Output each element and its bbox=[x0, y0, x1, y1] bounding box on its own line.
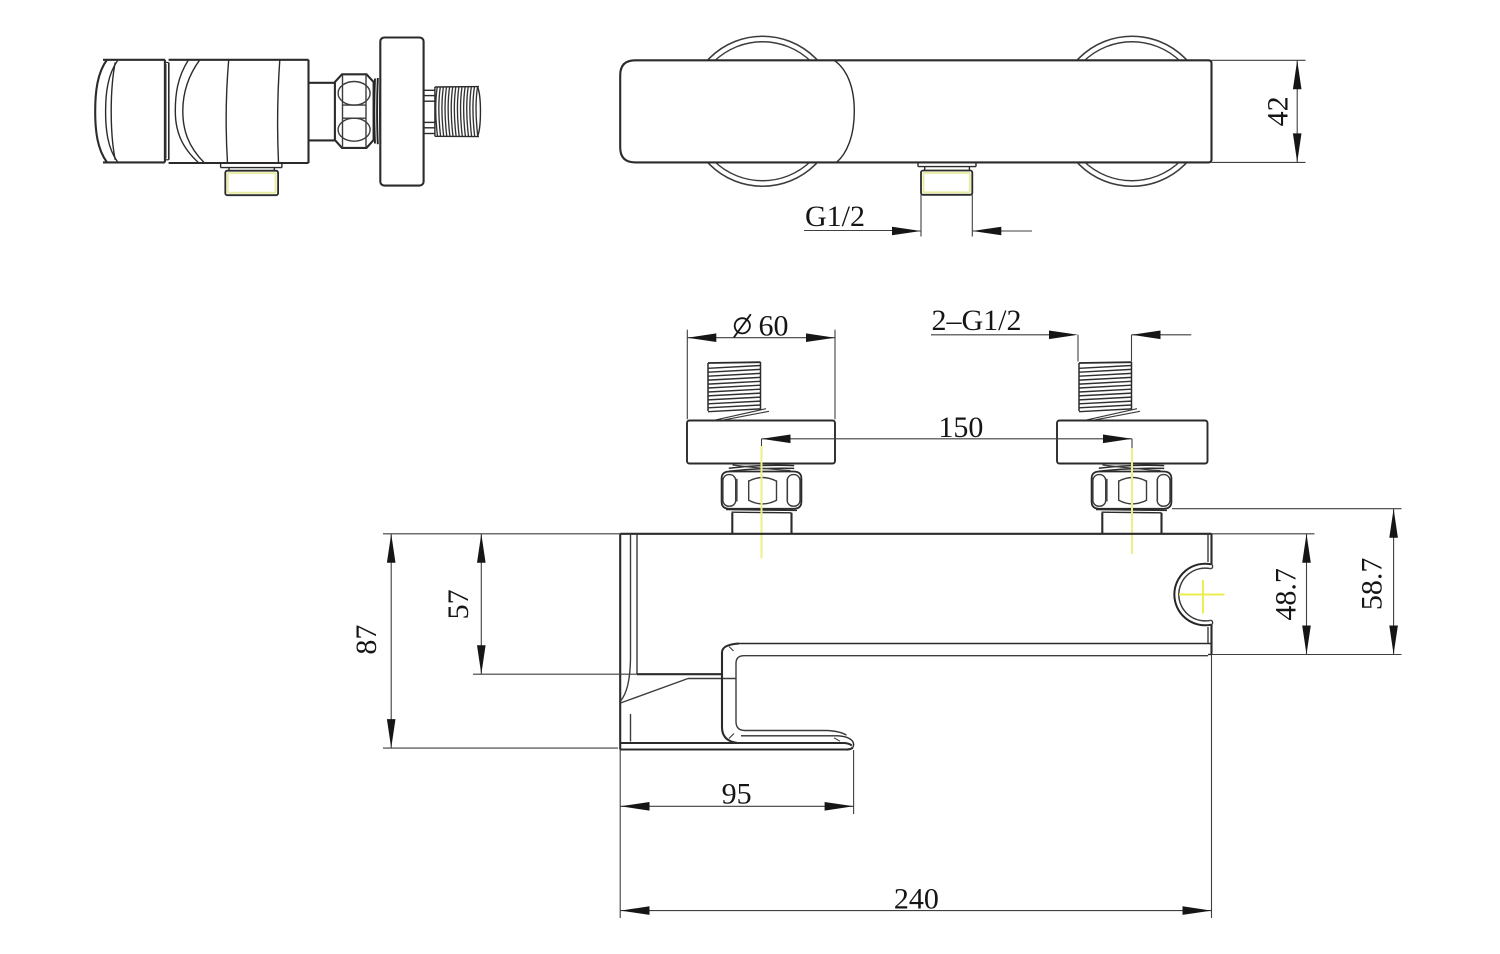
front view: bar left edge bbox=[619, 534, 621, 750]
left inlet: wall flange bbox=[687, 421, 835, 464]
left inlet: swivel nut assembly bbox=[722, 465, 802, 534]
right inlet: swivel nut assembly bbox=[1092, 465, 1172, 534]
svg-text:G1/2: G1/2 bbox=[805, 200, 865, 233]
left inlet: yellow center line bbox=[761, 446, 763, 559]
front view: spout slot left wall bbox=[722, 644, 750, 743]
side view: outlet collar bbox=[221, 163, 282, 171]
front view: bar top edge bbox=[620, 533, 1211, 535]
right inlet: wall flange bbox=[1057, 421, 1208, 464]
dimension 150 bbox=[762, 411, 1133, 449]
front view: bar right end edges bbox=[1208, 534, 1212, 655]
top view: right mounting flange circles bbox=[1057, 36, 1207, 186]
svg-text:42: 42 bbox=[1262, 96, 1295, 126]
side view: threaded pipe bbox=[435, 87, 481, 137]
dimension 2-G1/2 bbox=[931, 304, 1191, 361]
dimension 48.7 bbox=[1212, 534, 1315, 655]
side view: handle body bbox=[103, 60, 165, 163]
front view: junction lines under bar bbox=[621, 679, 737, 742]
front view: spout slot top edges bbox=[739, 644, 1212, 656]
top view: handle separation bulge bbox=[834, 60, 854, 162]
dimension 87 bbox=[350, 534, 620, 748]
side view: body waist curves bbox=[175, 60, 204, 163]
front view: diverter knob yellow center mark bbox=[1179, 580, 1225, 614]
front view: bar bottom edge left section bbox=[637, 673, 722, 675]
side view: hex nut bbox=[335, 74, 374, 148]
side view: outlet box with yellow liner bbox=[225, 171, 278, 196]
top view: outlet collar bbox=[918, 162, 976, 170]
left inlet: G1/2 thread bbox=[708, 362, 761, 412]
side view: neck between handle and body bbox=[165, 63, 169, 160]
right inlet: thread runout lines bbox=[1085, 409, 1140, 421]
svg-text:87: 87 bbox=[350, 625, 383, 655]
side view: handle end cap arcs bbox=[95, 60, 117, 163]
side view: valve body bbox=[169, 60, 309, 163]
dimension diameter 60 bbox=[687, 309, 835, 419]
right inlet: yellow center line bbox=[1131, 448, 1133, 554]
dimension 57 bbox=[442, 534, 637, 674]
left inlet: thread runout lines bbox=[714, 409, 769, 421]
side view: wall flange plate bbox=[380, 38, 423, 186]
top view: outlet box with yellow liner bbox=[921, 171, 972, 195]
front view: diverter knob C-ring bbox=[1174, 564, 1212, 626]
svg-text:48.7: 48.7 bbox=[1269, 568, 1302, 621]
svg-text:240: 240 bbox=[894, 883, 939, 916]
side view: connection stub bbox=[309, 83, 335, 141]
right inlet: G1/2 thread bbox=[1079, 362, 1132, 412]
top view: outlet extension lines bbox=[921, 195, 972, 237]
side view: washer rings bbox=[374, 78, 380, 144]
dimension 95 bbox=[621, 750, 854, 814]
top view: mixer bar body bbox=[620, 60, 1211, 162]
svg-text:58.7: 58.7 bbox=[1356, 558, 1389, 611]
side view: pipe stub lines bbox=[424, 90, 435, 133]
front view: inner wall lines at left bbox=[621, 534, 638, 701]
side view: body contour lines bbox=[226, 60, 280, 163]
front view: spout bottom edges bbox=[620, 731, 853, 750]
top view: left mounting flange circles bbox=[688, 36, 838, 186]
top view: G1/2 label and leader bbox=[804, 200, 1032, 236]
dimension 58.7 bbox=[1172, 509, 1402, 655]
dimension 42 bbox=[1212, 60, 1306, 162]
dimension 240 bbox=[620, 655, 1211, 919]
svg-text:95: 95 bbox=[722, 778, 752, 811]
svg-text:150: 150 bbox=[938, 411, 983, 444]
svg-text:57: 57 bbox=[442, 589, 475, 619]
svg-text:2–G1/2: 2–G1/2 bbox=[932, 304, 1022, 337]
svg-text:60: 60 bbox=[759, 309, 789, 342]
